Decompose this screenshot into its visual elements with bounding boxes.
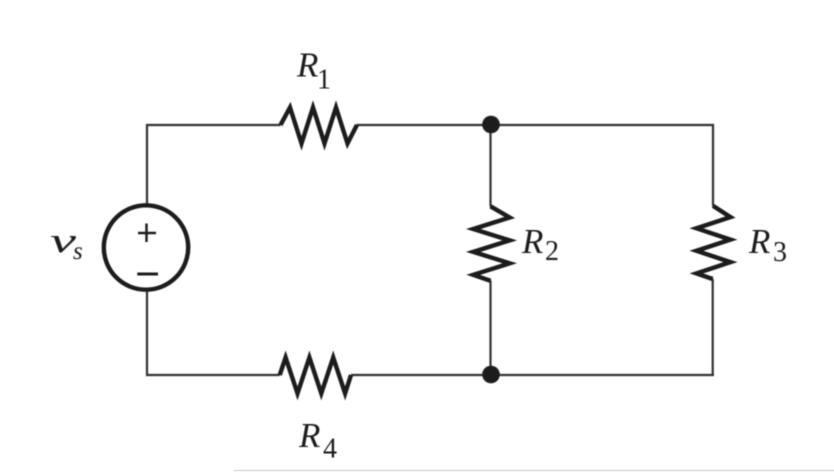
svg-text:R: R <box>298 416 320 455</box>
svg-text:s: s <box>73 238 83 265</box>
svg-text:R: R <box>748 222 770 261</box>
svg-text:R: R <box>521 222 543 261</box>
svg-text:2: 2 <box>545 236 559 267</box>
svg-text:3: 3 <box>773 237 787 268</box>
svg-text:1: 1 <box>317 65 331 96</box>
svg-text:4: 4 <box>323 434 337 465</box>
svg-text:R: R <box>296 46 318 85</box>
